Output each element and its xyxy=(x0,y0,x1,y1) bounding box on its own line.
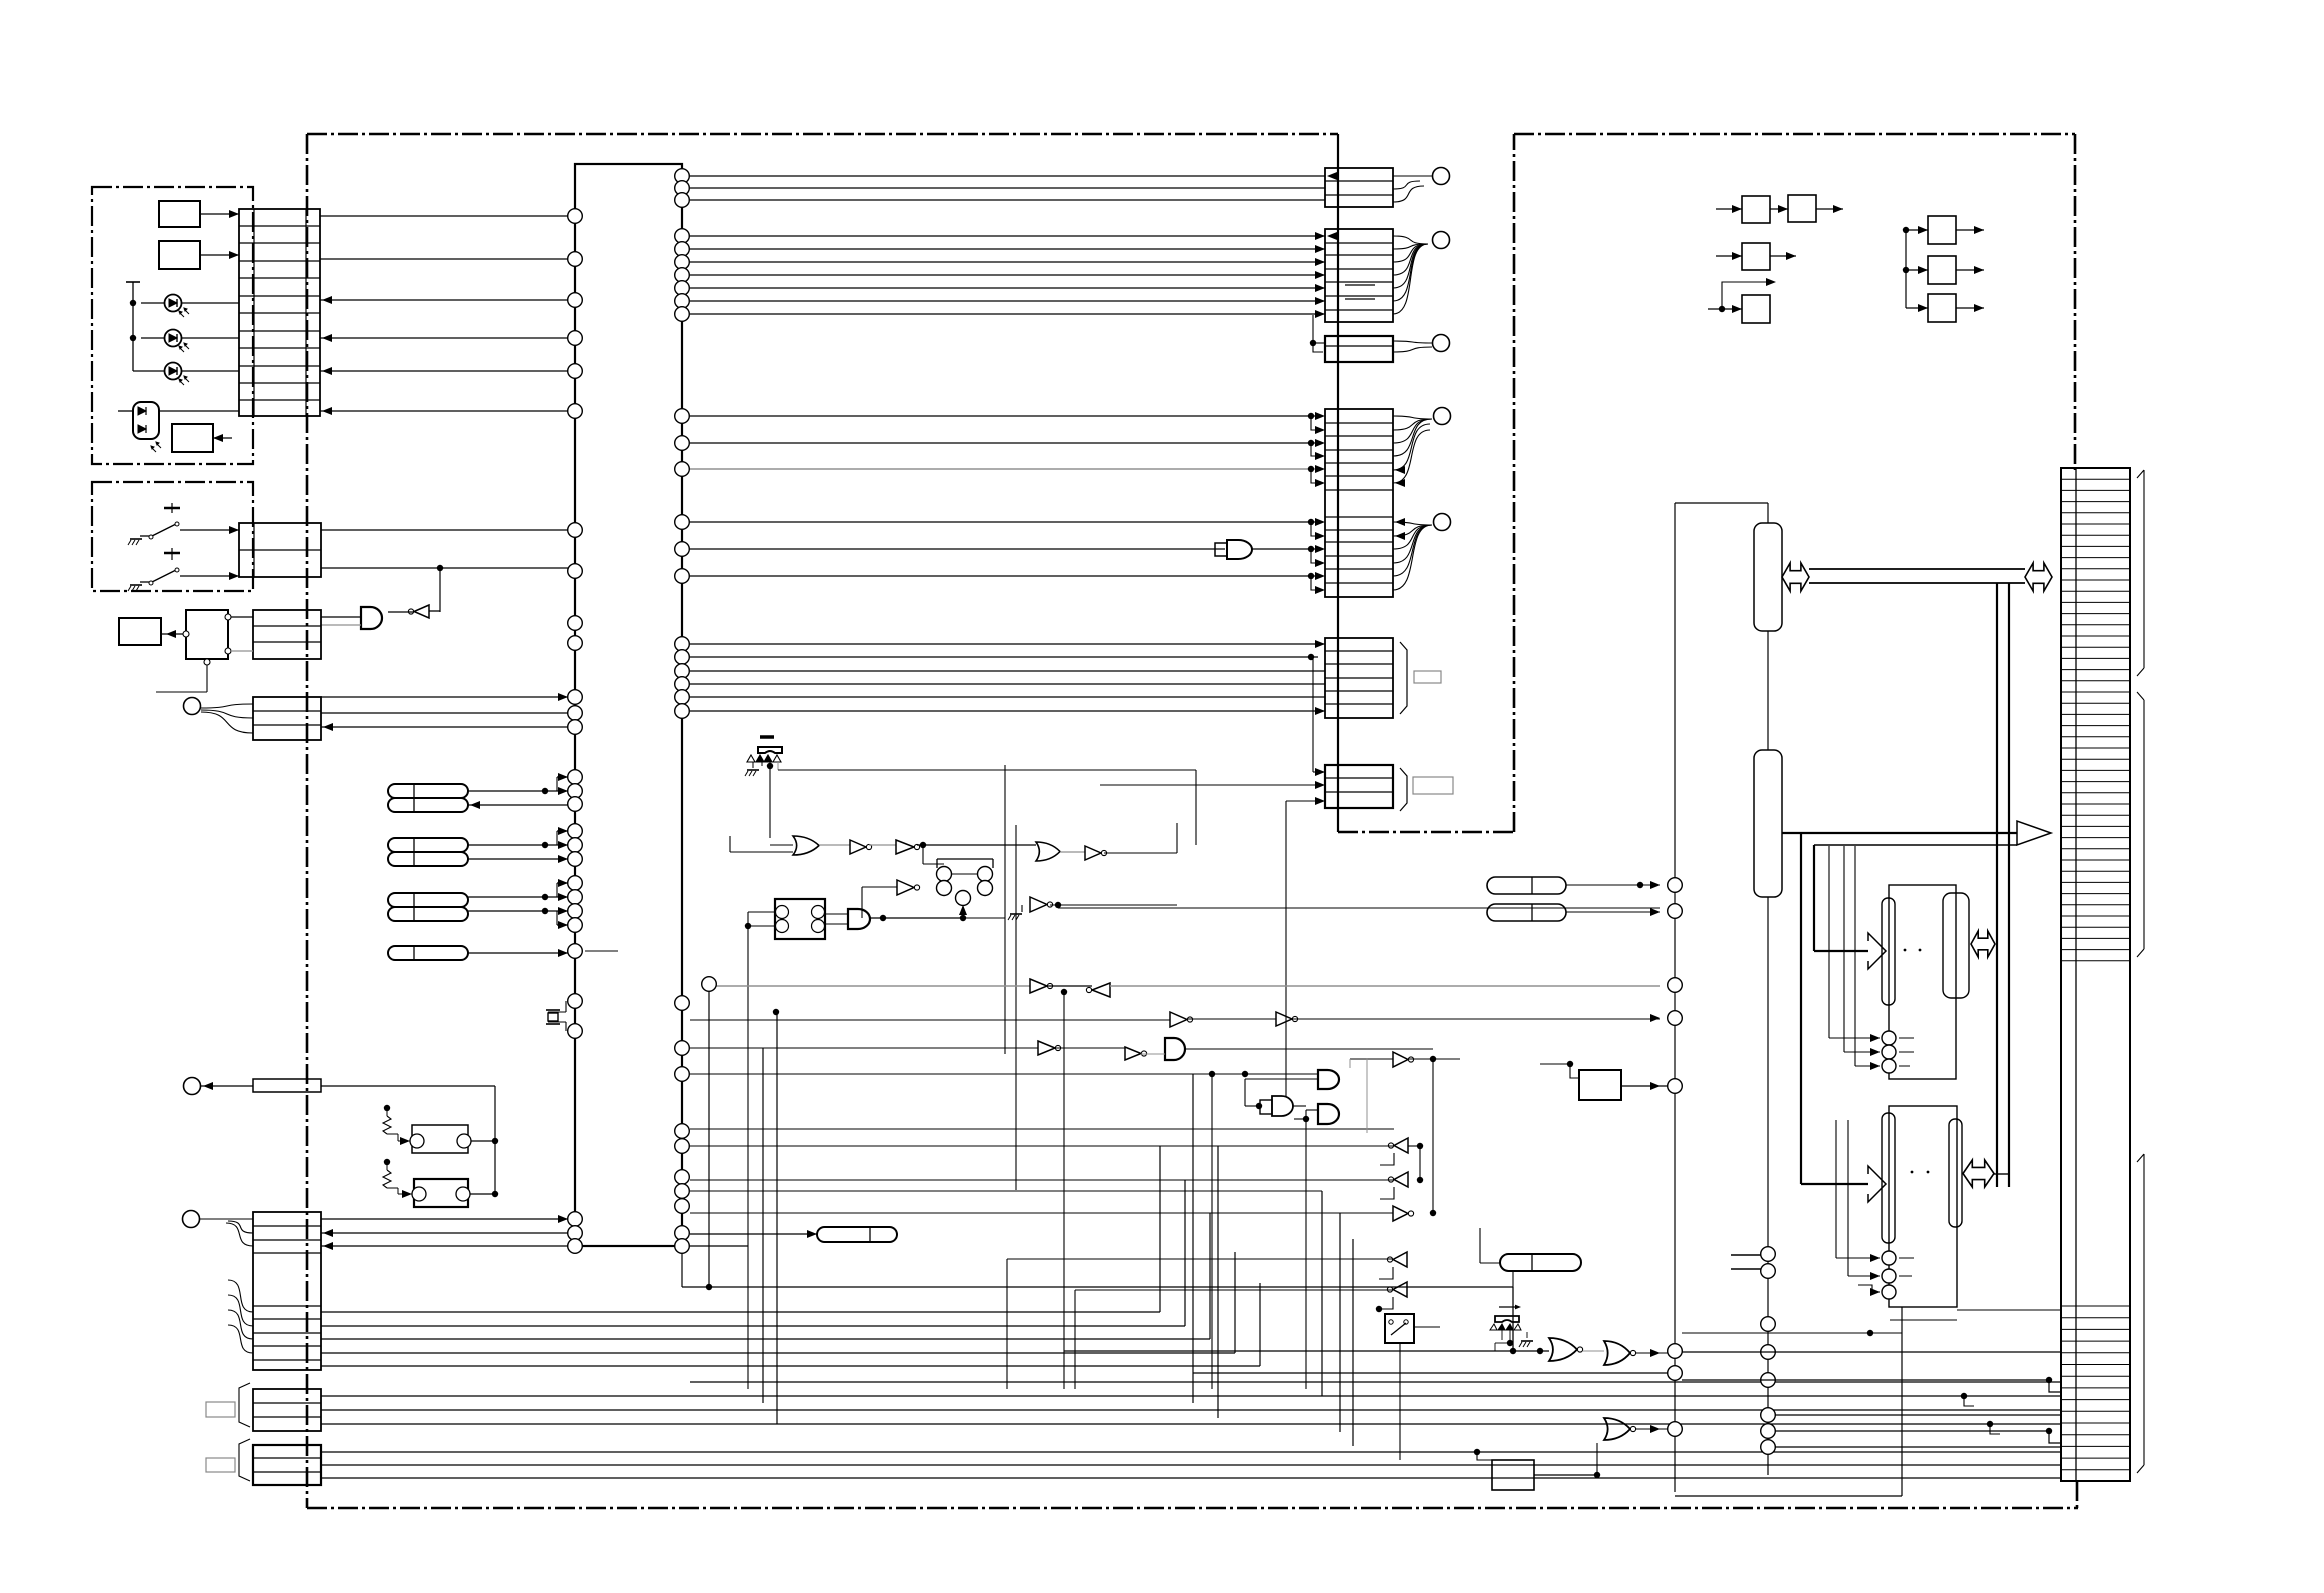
wire CN2 to IC xyxy=(321,529,568,531)
LED D3 xyxy=(165,363,182,380)
wire CN5 to IC xyxy=(321,1218,568,1220)
wires entering CN13 lower xyxy=(2076,1481,2078,1508)
buffer U9a xyxy=(1393,1052,1408,1067)
resonator CF1 xyxy=(388,784,468,798)
NOR gate U11c xyxy=(1604,1418,1630,1440)
resistor R11 xyxy=(384,1105,390,1111)
connector CN9 xyxy=(1325,229,1393,322)
display block S1 xyxy=(159,201,200,227)
connector CN5 xyxy=(253,1212,321,1370)
encoder block SW10 xyxy=(775,899,825,939)
wire IC bottom xyxy=(681,1246,683,1287)
phase comparator Q10 xyxy=(922,845,924,864)
buffer box B1 xyxy=(1742,196,1770,223)
board outline left section (dash-dot) xyxy=(307,133,1338,136)
wire CF3 to IC xyxy=(468,896,568,898)
system controller IC2 xyxy=(1754,523,1782,631)
AND gate U5 xyxy=(690,548,1225,550)
buffer U7c xyxy=(1030,979,1047,993)
switch SW1 xyxy=(164,507,180,510)
AND gate U8a xyxy=(1318,1070,1339,1089)
wire xyxy=(690,442,1318,444)
terminal circle xyxy=(1434,408,1451,425)
wire bus CN1 to IC xyxy=(320,215,568,217)
wire xyxy=(870,917,963,919)
brace right xyxy=(2137,470,2144,676)
big arrow to RAM1 xyxy=(1814,950,1868,952)
buffer U9e (left) xyxy=(1393,1252,1407,1267)
connector CN7 xyxy=(253,1445,321,1485)
resonator CF3 xyxy=(388,893,468,907)
connector CN3 xyxy=(253,610,321,659)
terminal circle xyxy=(1434,514,1451,531)
buffer U9d xyxy=(1393,1206,1408,1221)
connector CN2 xyxy=(239,523,321,577)
inverter U7g xyxy=(690,1047,1038,1049)
reset IC U12 xyxy=(1492,1460,1534,1490)
buffer U6b xyxy=(819,844,850,846)
OR gate U6a xyxy=(793,836,819,855)
wire xyxy=(1767,503,1769,523)
AND gate U8b xyxy=(1260,1100,1272,1114)
buffer U7d (left) xyxy=(1092,983,1110,997)
IC1 right pin circles xyxy=(675,169,690,184)
bus CN5 staircase xyxy=(321,1311,1160,1313)
buffer U9f (left) xyxy=(1393,1282,1407,1297)
buffer box B2 xyxy=(1788,195,1816,222)
wire xyxy=(690,415,1318,417)
wire to CN11 xyxy=(1312,657,1314,772)
wire xyxy=(118,410,133,412)
inverter U6f xyxy=(1060,851,1085,853)
switch box (dash-dot) xyxy=(92,482,253,591)
wire CF2 to IC xyxy=(468,844,568,846)
buffer box B5 xyxy=(1928,216,1956,244)
bus verticals to RAM blocks xyxy=(1800,833,1802,1184)
wire xyxy=(917,844,1036,846)
wire xyxy=(1176,823,1178,853)
wire xyxy=(213,437,232,439)
connector CN1 xyxy=(239,209,320,416)
wires into RAM1 circles xyxy=(1828,846,1830,1038)
RAM2 mode circles xyxy=(1882,1251,1896,1265)
label plate xyxy=(206,1458,235,1472)
bus verticals xyxy=(1996,583,1998,1187)
wires into RAM2 circles xyxy=(1828,1038,1830,1258)
RAM block1 xyxy=(1889,885,1956,1079)
wire xyxy=(1596,1418,1598,1429)
resistor R12 xyxy=(384,1159,390,1165)
RAM1 mode circles xyxy=(1882,1031,1896,1045)
wire xyxy=(206,659,208,692)
buffer box B3 xyxy=(1742,243,1770,270)
connector CN4 xyxy=(253,697,321,740)
pin stub xyxy=(585,950,605,952)
label plate xyxy=(1413,777,1453,794)
inverter U2a xyxy=(439,568,441,612)
AND gate U8c xyxy=(1318,1104,1339,1124)
varistor pack VZ2 xyxy=(1499,1306,1517,1308)
ceramic filter CF6 xyxy=(1500,1254,1581,1271)
servo IC3 xyxy=(1754,750,1782,897)
OR gate U6e xyxy=(1036,842,1060,861)
wire (gray) xyxy=(716,985,1030,987)
big arrow to RAM2 xyxy=(1801,1183,1868,1185)
terminal circle xyxy=(1433,168,1450,185)
wire xyxy=(690,1190,1322,1192)
LED D1 xyxy=(165,295,182,312)
LED supply rail xyxy=(132,282,134,371)
wire xyxy=(200,254,239,256)
wire xyxy=(321,1085,495,1087)
ceramic filter CF5 xyxy=(817,1227,897,1242)
buffer box B7 xyxy=(1928,294,1956,322)
resistor R10 xyxy=(184,1078,201,1095)
rail2 xyxy=(1767,897,1769,1475)
wire IC bottom corner xyxy=(681,0,683,1246)
display block S2 xyxy=(159,241,200,269)
buffer box B4 xyxy=(1742,295,1770,323)
block U4 xyxy=(119,618,161,645)
wire xyxy=(690,1073,1318,1075)
wire (gray) xyxy=(1110,985,1660,987)
hook wires xyxy=(1312,315,1314,343)
connector CN11 xyxy=(1325,638,1393,718)
system block U3 xyxy=(186,610,228,659)
connector CN13 (to mechanism) xyxy=(2061,468,2130,1481)
wire CF4 to IC xyxy=(468,952,568,954)
riser wires xyxy=(1063,992,1065,1389)
wire xyxy=(690,1245,748,1247)
analog switch SW11 xyxy=(1385,1314,1414,1343)
connector CN12 xyxy=(1325,765,1393,808)
wire xyxy=(1285,801,1287,1096)
wires right-bottom to connector xyxy=(1682,1351,2062,1353)
crystal X1 xyxy=(565,1001,567,1012)
clock pills xyxy=(1487,877,1566,894)
jack J1 xyxy=(184,698,201,715)
photo-coupler PC1 xyxy=(412,1125,468,1153)
board outline left-right divider xyxy=(1337,134,1339,832)
buffer U7f xyxy=(1276,1012,1292,1026)
verticals lower right xyxy=(1901,1307,1903,1496)
connector CN6 xyxy=(253,1389,321,1431)
wire bus IC to CN10 xyxy=(690,643,1325,645)
board outline right section (dash-dot) xyxy=(1514,133,2075,136)
inverter U7b xyxy=(1030,897,1047,912)
bus horizontal lines bottom xyxy=(690,1381,2061,1383)
inverter U6d xyxy=(897,880,914,895)
jack J2 xyxy=(183,1211,200,1228)
inverter U6c xyxy=(869,844,896,846)
photo-diode pack D4 xyxy=(133,402,159,439)
IC1 left pin circles xyxy=(568,209,583,224)
connector CN8 xyxy=(1325,168,1393,207)
wire bus IC to CN9 xyxy=(690,235,1325,237)
inverter U7h xyxy=(1125,1047,1141,1060)
AND gate U7a xyxy=(848,909,870,929)
microcontroller IC1 xyxy=(575,164,682,1246)
ground xyxy=(1021,905,1023,912)
connector CN10 xyxy=(1325,409,1393,597)
LED D2 xyxy=(165,330,182,347)
RAM block2 xyxy=(1889,1106,1957,1307)
resonator CF4 xyxy=(388,946,468,960)
buffer U9c (left) xyxy=(1394,1172,1408,1187)
switch SW2 xyxy=(164,552,180,555)
bus IC2 to CN13 xyxy=(1782,563,1809,591)
front panel box (dash-dot) xyxy=(92,187,253,464)
wire (gray) xyxy=(690,468,1318,470)
AND gate U2b xyxy=(361,607,382,629)
receiver block U10 xyxy=(172,424,213,452)
NOR gate U11a xyxy=(1549,1338,1577,1361)
riser xyxy=(762,1048,764,1403)
wire xyxy=(200,213,239,215)
stub wires xyxy=(1731,1254,1761,1256)
wire xyxy=(690,575,1318,577)
resonator CF2 xyxy=(388,838,468,852)
wire xyxy=(769,766,771,838)
bus IC3 right xyxy=(1782,832,2017,834)
AND gate U7i xyxy=(1165,1038,1185,1060)
photo-coupler PC2 xyxy=(414,1179,468,1207)
wire CN4 to IC xyxy=(321,696,568,698)
buffer U7e xyxy=(690,1019,1170,1021)
terminal circle xyxy=(1433,335,1450,352)
bus hooks into CN13 xyxy=(1961,1393,1967,1399)
NOR gate U11b xyxy=(1604,1341,1630,1365)
terminal circle xyxy=(1433,232,1450,249)
wire xyxy=(690,521,1318,523)
wire xyxy=(1193,1372,1668,1374)
left rail of right section xyxy=(1668,878,1683,893)
wire CF1 to IC xyxy=(468,790,568,792)
buffer U9b (left) xyxy=(1394,1138,1408,1153)
varistor pack VZ1 xyxy=(760,735,774,739)
connector CN10a xyxy=(1325,336,1393,362)
label plate xyxy=(206,1402,235,1417)
wire bus IC right to CN8 top xyxy=(690,175,1325,177)
wire xyxy=(1292,1017,1668,1019)
relay driver box xyxy=(1579,1070,1621,1100)
buffer box B6 xyxy=(1928,256,1956,284)
label plate xyxy=(1414,671,1441,683)
